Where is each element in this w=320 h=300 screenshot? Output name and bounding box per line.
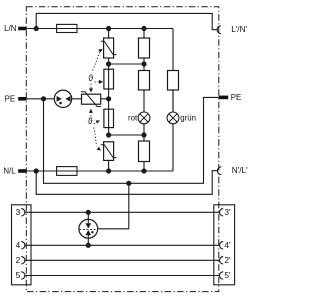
dashed arrow ϑ1 to RV1: [93, 49, 103, 71]
svg-text:ϑ: ϑ: [88, 73, 93, 83]
wire: bypass to L'/N' (up and across top): [36, 13, 217, 29]
svg-text:5': 5': [224, 270, 231, 280]
node: N/L branch1: [106, 168, 111, 173]
terminal 2 arc: [21, 257, 25, 264]
terminal 2' arc: [220, 257, 224, 264]
wire: GDT2 middle electrode to PE bus: [98, 183, 129, 229]
svg-text:3': 3': [224, 207, 231, 217]
node: GDT2 bottom / row 4: [86, 243, 91, 248]
node: branch1 top: [106, 26, 111, 31]
svg-text:5: 5: [16, 270, 21, 280]
node: GDT2 top / row 3: [86, 210, 91, 215]
wire: PE row: [26, 98, 108, 100]
terminal L/N (stub): [18, 27, 26, 31]
terminal PE right (stub): [219, 96, 228, 100]
dashed arrow ϑ1 to F1: [95, 80, 104, 84]
dashed arrow ϑ2 to F2: [94, 120, 100, 124]
wire: N bus to N'/L': [36, 171, 217, 195]
svg-text:rot: rot: [128, 114, 138, 123]
wire: L/N row: [26, 28, 173, 30]
node: L/N tap: [34, 26, 39, 31]
svg-text:N'/L': N'/L': [232, 166, 248, 175]
indicator lamp green: [167, 90, 179, 124]
svg-text:2': 2': [224, 255, 231, 265]
wire row 5: [25, 275, 220, 277]
resistor R4: [168, 29, 179, 113]
svg-text:3: 3: [16, 207, 21, 217]
varistor RV2: [81, 92, 101, 107]
svg-text:PE: PE: [5, 94, 16, 103]
terminal 4 arc: [21, 242, 25, 249]
wire row 3: [25, 211, 220, 213]
resistor R1: [139, 29, 150, 59]
device boundary (dash-dot frame): [26, 7, 219, 292]
spark gap GDT1: [54, 90, 71, 107]
svg-text:4': 4': [224, 240, 231, 250]
wire row 2: [25, 259, 220, 261]
terminal N'/L' (socket arc): [217, 167, 221, 175]
terminal L'/N' (socket arc): [217, 26, 221, 34]
node: PE / branch1: [106, 96, 111, 101]
fuse F1 (thermal disconnector upper): [104, 69, 114, 99]
wire: cross link y135: [109, 124, 144, 141]
node: N/L branch2: [141, 168, 146, 173]
dashed arrow ϑ2 to RV2: [89, 109, 93, 117]
node: branch1 y135: [106, 132, 111, 137]
wire: PE equipotential bus: [44, 97, 219, 183]
svg-text:L/N: L/N: [4, 24, 17, 33]
varistor RV3: [101, 142, 117, 171]
terminal 3' arc: [220, 209, 224, 216]
terminal PE left (stub): [18, 97, 26, 101]
wire: cross link y64: [109, 58, 144, 71]
indicator lamp red: [138, 112, 150, 124]
dashed arrow ϑ2 to RV3: [94, 128, 101, 151]
node: PE tap: [41, 96, 46, 101]
terminal 4' arc: [220, 242, 224, 249]
resistor R2: [139, 71, 150, 113]
svg-text:2: 2: [16, 255, 21, 265]
terminal block right (3' 4' 2' 5'): [214, 205, 235, 285]
terminal 5' arc: [219, 272, 223, 279]
terminal N/L (stub): [18, 169, 26, 173]
svg-text:N/L: N/L: [3, 167, 16, 176]
resistor R3: [139, 141, 150, 171]
dashed arrow ϑ1 to RV2: [89, 84, 93, 93]
node: PE bus / GDT2: [126, 181, 131, 186]
varistor RV1: [101, 29, 117, 59]
terminal block left (3 4 2 5): [12, 205, 32, 285]
node: N/L tap: [34, 168, 39, 173]
node: branch2 y64: [141, 61, 146, 66]
fuse F3 (N/L disconnector): [57, 167, 77, 176]
gas discharge tube GDT2 (3-electrode): [79, 212, 98, 245]
svg-text:PE: PE: [231, 93, 242, 102]
terminal 3 arc: [21, 209, 25, 216]
node: branch1 y64: [106, 61, 111, 66]
node: branch2 y135: [141, 132, 146, 137]
svg-text:L'/N': L'/N': [231, 25, 247, 34]
fuse F2 (thermal disconnector lower): [104, 99, 114, 135]
svg-text:4: 4: [16, 240, 21, 250]
svg-text:ϑ: ϑ: [88, 116, 93, 126]
node: branch2 top: [141, 26, 146, 31]
svg-text:grün: grün: [180, 114, 196, 123]
wire row 4: [25, 244, 220, 246]
terminal 5 arc: [21, 272, 25, 279]
wire: N/L row: [26, 124, 173, 171]
fuse F0 (L/N disconnector): [57, 24, 77, 32]
